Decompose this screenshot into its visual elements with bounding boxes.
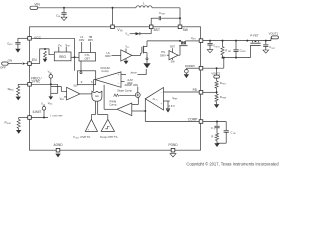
svg-text:SW: SW	[183, 28, 189, 32]
svg-text:DRV: DRV	[88, 39, 93, 42]
svg-text:ON: ON	[8, 58, 13, 62]
svg-text:L: L	[143, 1, 145, 5]
svg-text:ILIM: ILIM	[7, 123, 11, 125]
svg-text:LIMIT REF: LIMIT REF	[52, 115, 63, 117]
svg-text:SYNC: SYNC	[32, 80, 41, 84]
svg-text:BST: BST	[170, 46, 175, 49]
svg-text:FWD: FWD	[242, 51, 247, 53]
svg-text:VIN: VIN	[34, 3, 39, 7]
svg-text:Temp OTP Th.: Temp OTP Th.	[100, 135, 118, 139]
svg-text:BST: BST	[154, 28, 160, 32]
svg-text:OUT: OUT	[67, 46, 71, 48]
svg-text:P-FET: P-FET	[250, 34, 259, 38]
svg-text:HB: HB	[89, 36, 93, 39]
svg-text:ILIMIT: ILIMIT	[33, 110, 42, 114]
svg-text:EN: EN	[32, 58, 37, 62]
svg-text:SENSE: SENSE	[131, 72, 138, 74]
svg-text:VCC: VCC	[9, 44, 14, 46]
svg-text:V: V	[73, 135, 75, 139]
svg-text:FRQ: FRQ	[10, 90, 15, 92]
svg-text:SW: SW	[171, 61, 176, 64]
svg-text:LS: LS	[80, 36, 83, 39]
svg-text:PGND: PGND	[168, 143, 178, 147]
svg-text:Copyright © 2017, Texas Instru: Copyright © 2017, Texas Instruments Inco…	[186, 162, 279, 166]
svg-text:REG: REG	[59, 55, 66, 59]
svg-text:C: C	[159, 11, 161, 15]
svg-text:C: C	[56, 13, 58, 17]
svg-text:OUT1: OUT1	[215, 46, 220, 48]
svg-text:AGND: AGND	[53, 143, 63, 147]
svg-text:DRV: DRV	[79, 39, 84, 42]
svg-text:IN: IN	[120, 31, 123, 33]
svg-text:SLP: SLP	[73, 84, 78, 87]
svg-text:COMP: COMP	[188, 117, 198, 121]
svg-text:FB: FB	[193, 88, 197, 92]
svg-text:R: R	[4, 120, 6, 124]
svg-text:OVP Th.: OVP Th.	[80, 135, 91, 139]
svg-text:VOUT1: VOUT1	[269, 32, 279, 36]
svg-text:OFF: OFF	[0, 66, 6, 70]
svg-text:FB1: FB1	[228, 51, 231, 53]
